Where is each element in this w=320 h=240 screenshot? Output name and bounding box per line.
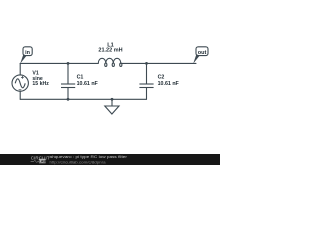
footer watermark bar: [0, 154, 220, 165]
svg-text:ahquevaro : pi type RC low pas: ahquevaro : pi type RC low pass filter: [50, 155, 128, 159]
svg-text:10.61 nF: 10.61 nF: [158, 81, 180, 87]
footer logo wave: [31, 160, 39, 162]
svg-text:http://circuitlab.com/c/8dpnra: http://circuitlab.com/c/8dpnra: [50, 161, 107, 165]
wire C1 bottom lead: [67, 88, 69, 100]
capacitor C1: [61, 84, 75, 88]
node junction dots: [67, 62, 148, 101]
svg-text:out: out: [198, 50, 207, 56]
capacitor C2: [139, 84, 153, 88]
svg-text:21.22 mH: 21.22 mH: [98, 48, 122, 54]
svg-text:LAB: LAB: [39, 159, 47, 163]
wire C1 top lead: [67, 63, 69, 84]
svg-text:10.61 nF: 10.61 nF: [77, 81, 99, 87]
voltage source V1: [12, 75, 28, 91]
footer logo CIRCUIT: [31, 155, 50, 160]
label V1 value: [32, 71, 49, 88]
wire top rail right segment: [121, 62, 196, 64]
wire top rail left segment: [20, 62, 98, 64]
wire C2 bottom lead: [146, 88, 148, 100]
ground: [105, 99, 119, 114]
wire C2 top lead: [146, 63, 148, 84]
wire bottom rail: [20, 98, 146, 100]
svg-text:C2: C2: [158, 75, 165, 81]
svg-text:in: in: [25, 50, 31, 56]
label C2 value: [158, 75, 180, 88]
label C1 value: [77, 75, 99, 88]
svg-text:C1: C1: [77, 75, 84, 81]
node out flag: [193, 47, 208, 64]
wire left vertical upper: [19, 63, 21, 75]
svg-text:15 kHz: 15 kHz: [32, 81, 49, 87]
footer logo LAB badge: [39, 159, 47, 164]
inductor L1: [98, 58, 122, 66]
node in flag: [20, 47, 32, 64]
wire left vertical lower: [19, 91, 21, 99]
label L1 value: [98, 43, 122, 54]
